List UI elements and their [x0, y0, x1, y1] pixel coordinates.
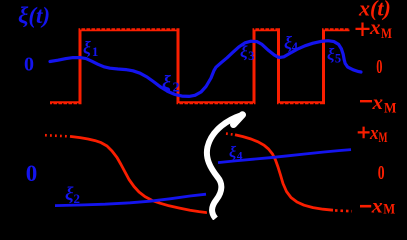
svg-text:0: 0	[376, 56, 382, 78]
bottom right red dotted tail	[335, 209, 352, 212]
break squiggle black casing	[207, 115, 242, 219]
squiggle wide top tip	[234, 115, 243, 125]
svg-text:M: M	[381, 26, 392, 42]
label -xM top	[360, 100, 372, 102]
bottom right blue line	[218, 150, 351, 163]
bottom right red sigmoid dotted lead	[226, 134, 235, 135]
square wave scan-dash texture bottom	[52, 103, 324, 105]
svg-text:0: 0	[26, 161, 38, 186]
noise curve xi(t) top	[50, 41, 361, 97]
svg-text:x: x	[369, 123, 379, 144]
break squiggle white stroke	[207, 115, 242, 219]
svg-text:M: M	[384, 101, 397, 117]
svg-text:M: M	[379, 130, 388, 146]
bottom right red sigmoid	[235, 135, 333, 210]
bottom left red sigmoid	[70, 136, 207, 212]
svg-text:x: x	[371, 194, 383, 218]
svg-text:x: x	[369, 15, 381, 39]
label -xM bottom	[360, 205, 371, 208]
svg-text:ξ(t): ξ(t)	[18, 3, 50, 28]
label +xM top	[356, 23, 370, 37]
bottom left blue line	[55, 194, 206, 205]
square wave scan-dash texture top	[80, 28, 350, 30]
svg-text:0: 0	[24, 54, 34, 76]
label +xM bottom	[358, 127, 370, 139]
svg-text:x: x	[372, 90, 384, 114]
svg-text:0: 0	[378, 162, 385, 184]
square wave x(t)	[50, 30, 350, 103]
bottom left red sigmoid dotted lead	[45, 135, 70, 136]
svg-text:M: M	[383, 202, 395, 218]
